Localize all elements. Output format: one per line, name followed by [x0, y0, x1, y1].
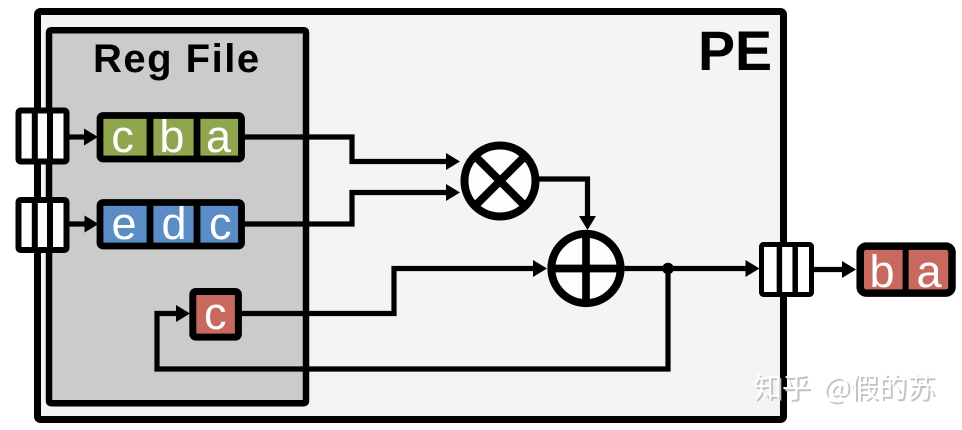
wire from output FIFO to register ba: [812, 261, 856, 278]
adder: [549, 231, 624, 306]
output FIFO: [762, 243, 812, 296]
register c (red, accumulator): [193, 288, 239, 339]
Reg File box: [49, 30, 306, 403]
register edc (blue): [100, 198, 242, 249]
wire from adder output to output FIFO: [625, 260, 760, 277]
svg-text:c: c: [111, 111, 134, 162]
register cba (green): [100, 111, 242, 162]
svg-text:e: e: [111, 198, 136, 249]
junction node on adder output: [662, 263, 674, 275]
wire from register edc to multiplier lower input: [242, 184, 461, 224]
register ba (red, output): [860, 243, 952, 297]
svg-text:b: b: [159, 111, 184, 162]
svg-text:Reg File: Reg File: [93, 37, 261, 81]
wire from input FIFO 1 to register cba: [69, 129, 98, 146]
wire from register c to adder left input: [241, 260, 547, 314]
feedback wire from junction to register c: [157, 269, 668, 370]
svg-text:b: b: [869, 246, 894, 297]
svg-text:d: d: [161, 198, 186, 249]
wire from input FIFO 2 to register edc: [69, 216, 99, 233]
PE label: [698, 20, 772, 82]
svg-text:a: a: [916, 246, 942, 297]
Reg File label: [93, 37, 261, 81]
input FIFO 1: [19, 109, 67, 164]
multiplier: [465, 146, 536, 217]
input FIFO 2: [19, 198, 67, 252]
svg-text:PE: PE: [698, 20, 772, 82]
wire from multiplier output to adder top input: [539, 179, 596, 230]
svg-text:c: c: [209, 198, 232, 249]
wire from register cba to multiplier upper input: [242, 137, 461, 170]
svg-text:a: a: [206, 111, 232, 162]
svg-text:c: c: [204, 288, 227, 339]
PE block outer box: [38, 12, 784, 420]
